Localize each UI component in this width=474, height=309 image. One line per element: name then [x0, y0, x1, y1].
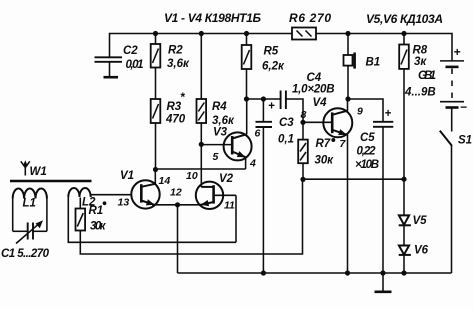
wire to diode V5	[403, 179, 405, 215]
wire V3 base	[201, 144, 231, 146]
svg-text:30к: 30к	[90, 221, 107, 233]
node R7 bottom	[300, 177, 305, 182]
node B1 / V4 collector	[345, 96, 350, 101]
wire bias line R7 to R8/diodes	[303, 178, 404, 180]
wire L1 right lead	[46, 199, 48, 232]
wire tank bottom left	[13, 230, 28, 232]
svg-text:3к: 3к	[414, 56, 427, 68]
svg-text:14: 14	[159, 175, 171, 187]
wire V5 to V6	[403, 225, 405, 245]
wire V6 to ground rail	[403, 255, 405, 273]
wire node to C4	[247, 98, 281, 100]
svg-text:11: 11	[224, 200, 235, 212]
svg-text:3,6к: 3,6к	[212, 115, 235, 127]
svg-text:+: +	[385, 108, 392, 120]
svg-text:V5,V6 КД103А: V5,V6 КД103А	[366, 12, 443, 26]
diode V6	[399, 246, 411, 255]
wire R4 to V2 collector	[200, 123, 202, 187]
resistor R5	[242, 34, 252, 100]
svg-text:V6: V6	[414, 245, 429, 257]
svg-text:GB1: GB1	[418, 70, 436, 82]
wire node to C5	[348, 99, 383, 122]
resistor R2	[151, 34, 161, 68]
transistor V2	[196, 182, 236, 243]
resistor R4	[197, 34, 207, 124]
svg-text:S1: S1	[458, 135, 472, 147]
resistor R6	[292, 28, 316, 40]
wire V1.C to V3.E horizontal	[156, 168, 246, 170]
node rail-R5	[244, 31, 249, 36]
svg-text:0,22: 0,22	[357, 146, 377, 158]
node rail-C5	[380, 270, 385, 275]
svg-text:6,2к: 6,2к	[262, 61, 285, 73]
svg-text:470: 470	[165, 114, 186, 126]
svg-text:V4: V4	[313, 97, 328, 109]
node rail-B1	[345, 31, 350, 36]
transistor V3	[224, 99, 252, 169]
svg-text:10: 10	[186, 170, 198, 182]
node R5-V3 collector	[244, 96, 249, 101]
svg-text:3,6к: 3,6к	[167, 58, 190, 70]
wire R3 to node 14	[155, 123, 157, 170]
svg-text:C4: C4	[307, 72, 322, 84]
svg-text:R8: R8	[413, 45, 428, 57]
resistor R1	[76, 198, 86, 231]
wire tank bottom right	[34, 230, 47, 232]
svg-text:V3: V3	[213, 127, 228, 139]
switch S1	[440, 131, 452, 273]
capacitor C5	[373, 108, 393, 273]
transistor V1	[131, 170, 159, 209]
battery GB1	[440, 58, 464, 132]
node rail-R4	[199, 31, 204, 36]
svg-text:R4: R4	[212, 101, 227, 113]
svg-text:C5: C5	[360, 132, 375, 144]
svg-text:0,01: 0,01	[126, 59, 144, 71]
svg-text:V1: V1	[120, 170, 134, 182]
svg-text:С1 5...270: С1 5...270	[1, 248, 50, 260]
ferrite rod	[10, 180, 92, 183]
node C3 tap	[261, 96, 266, 101]
svg-text:R5: R5	[264, 46, 279, 58]
svg-text:W1: W1	[30, 166, 47, 178]
svg-text:R6 270: R6 270	[289, 11, 331, 25]
svg-text:9: 9	[357, 106, 363, 118]
wire L2 left lead down	[68, 197, 236, 242]
node rail-R2	[153, 31, 158, 36]
svg-text:6: 6	[255, 128, 261, 140]
resistor R7	[298, 122, 308, 179]
svg-text:R2: R2	[168, 45, 183, 57]
wire R2-R3	[155, 68, 157, 100]
earphone B1	[344, 34, 355, 100]
svg-text:8: 8	[301, 109, 307, 121]
capacitor C4	[268, 91, 286, 113]
capacitor C1 variable	[16, 220, 43, 243]
node V3 base tap (on R4 column)	[199, 142, 204, 147]
wire emitter node to ground rail	[177, 205, 179, 273]
svg-text:12: 12	[170, 187, 182, 199]
node bias-diodes	[401, 177, 406, 182]
svg-text:B1: B1	[366, 57, 381, 69]
svg-text:V1 - V4 К198НТ1Б: V1 - V4 К198НТ1Б	[164, 11, 262, 25]
node rail-C3	[261, 270, 266, 275]
resistor R3	[151, 99, 161, 123]
svg-text:+: +	[268, 101, 275, 113]
wire C4 to V4 base	[286, 99, 303, 122]
wire L2 right to V1 base	[91, 195, 132, 197]
wire top supply rail left section	[110, 34, 293, 58]
svg-text:0,1: 0,1	[278, 134, 294, 146]
antenna W1 symbol	[21, 160, 30, 175]
node rail-diodes	[401, 270, 406, 275]
node rail-V4 emitter	[345, 270, 350, 275]
node common emitter (pin 12)	[175, 202, 180, 207]
wire common emitters V1-V2	[152, 204, 201, 206]
svg-text:×10В: ×10В	[355, 159, 379, 171]
svg-text:R1: R1	[89, 205, 104, 217]
transistor V4	[303, 99, 352, 273]
node V4 base / R7	[300, 120, 305, 125]
svg-text:V2: V2	[219, 173, 234, 185]
svg-text:30к: 30к	[315, 155, 335, 167]
wire L1 left lead	[12, 199, 14, 232]
node rail-R8	[401, 31, 406, 36]
wire R1 bottom to bias line	[80, 180, 302, 255]
svg-text:13: 13	[118, 197, 130, 209]
svg-text:V5: V5	[413, 215, 428, 227]
svg-text:R7: R7	[316, 138, 331, 150]
svg-text:*: *	[180, 90, 186, 104]
wire top supply rail right section	[316, 34, 452, 59]
svg-text:−: −	[460, 100, 467, 114]
node V1 collector (pin 14)	[153, 167, 158, 172]
svg-text:C2: C2	[123, 45, 138, 57]
inductor L1	[13, 189, 47, 199]
svg-text:L1: L1	[23, 198, 36, 210]
svg-text:5: 5	[213, 151, 219, 163]
capacitor C2	[95, 57, 123, 77]
svg-text:4: 4	[249, 158, 256, 170]
diode V5	[399, 215, 411, 225]
inductor L2	[68, 188, 90, 197]
svg-text:4...9В: 4...9В	[404, 87, 436, 99]
svg-text:1,0×20В: 1,0×20В	[292, 84, 335, 96]
ground symbol	[375, 273, 392, 292]
resistor R8	[399, 34, 409, 180]
wire ground rail	[178, 272, 452, 274]
svg-text:+: +	[454, 45, 461, 59]
svg-text:7: 7	[340, 138, 347, 150]
svg-text:C3: C3	[279, 117, 294, 129]
capacitor C3	[256, 99, 273, 273]
